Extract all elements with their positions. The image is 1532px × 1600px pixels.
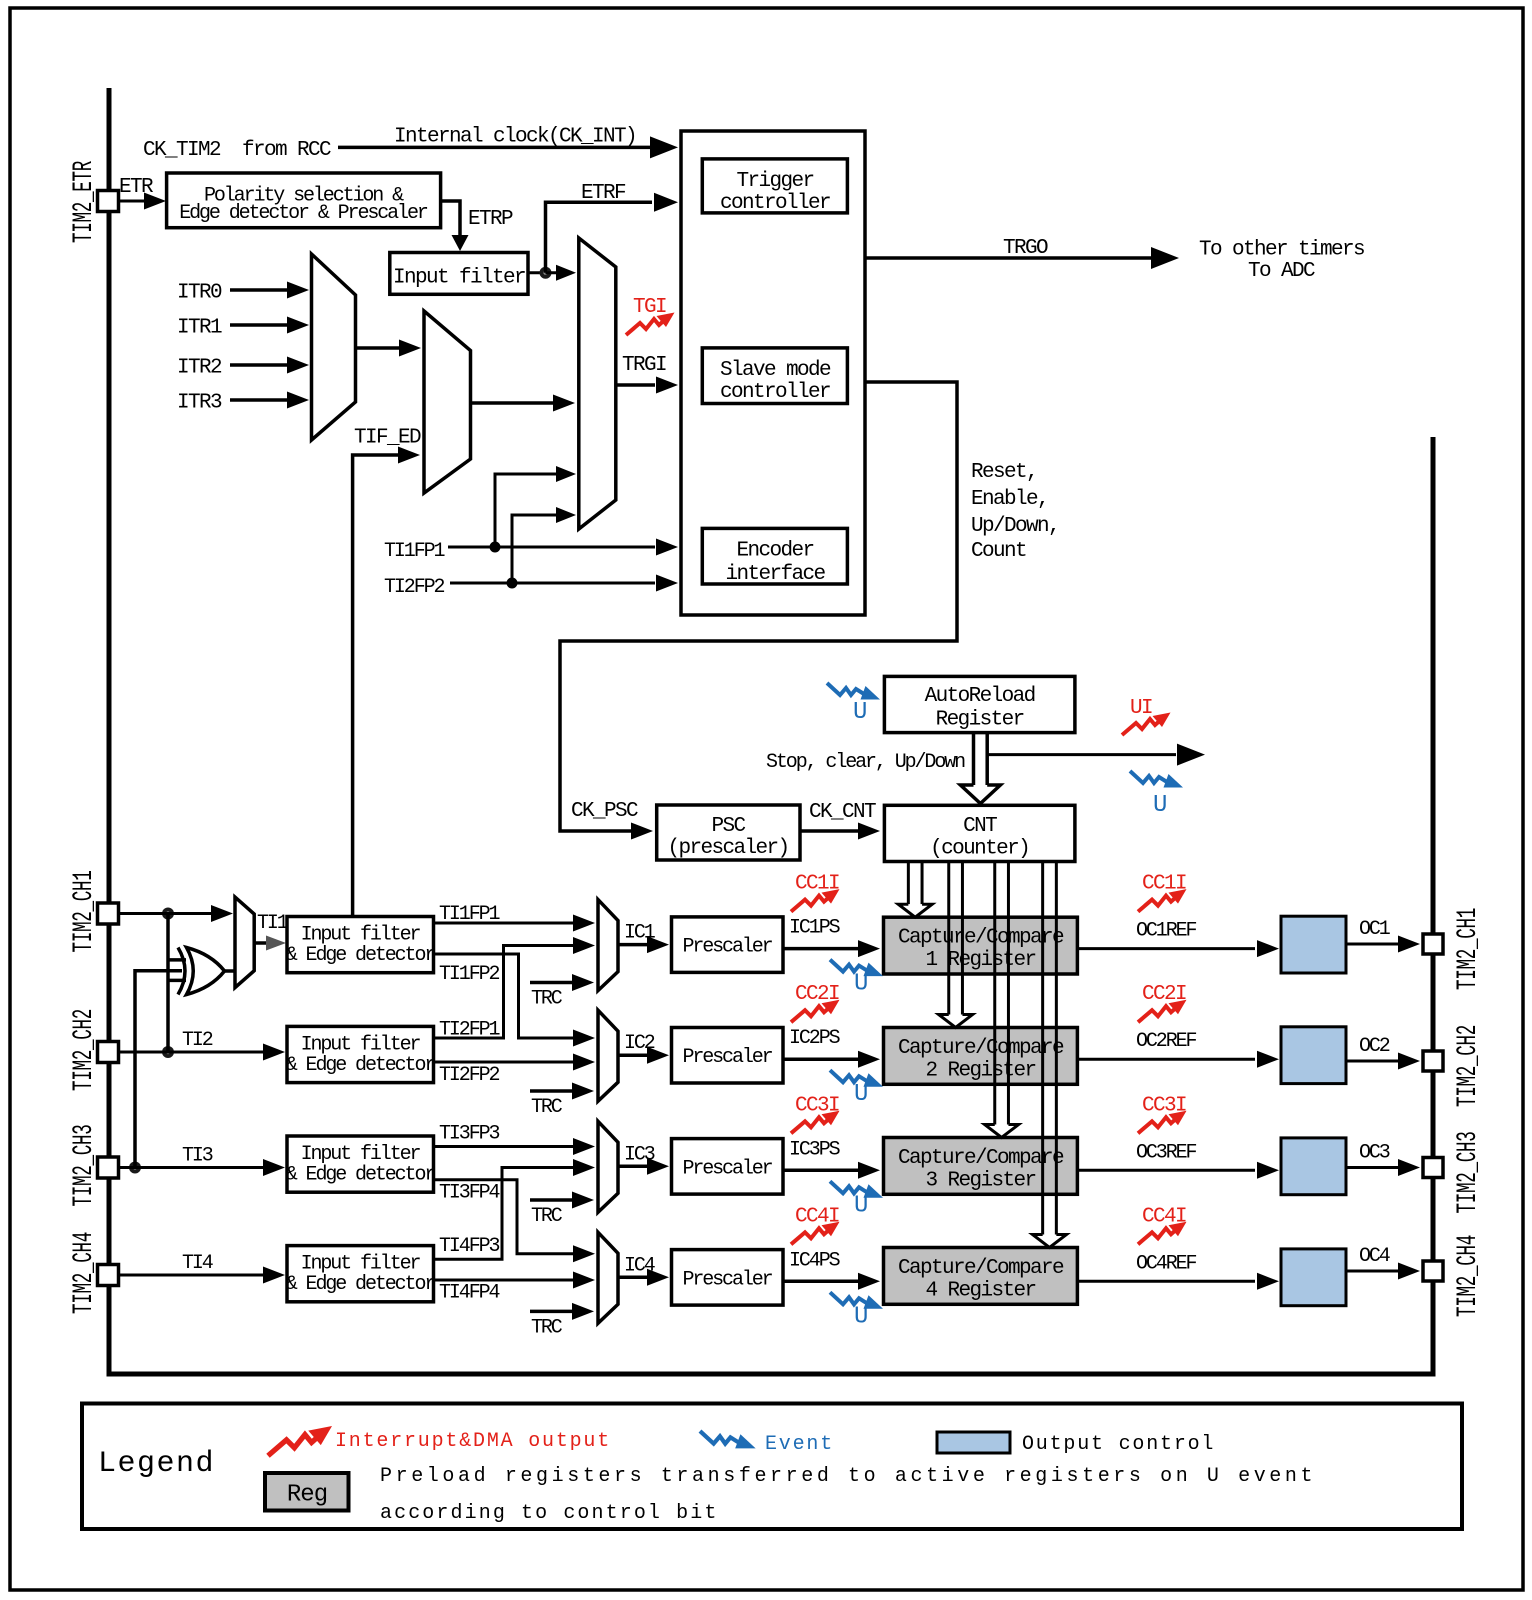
svg-text:U: U <box>853 699 866 726</box>
svg-text:U: U <box>854 971 867 998</box>
box legend <box>82 1404 1462 1530</box>
pad TIM2_CH1 right <box>1423 934 1443 954</box>
wire OC2REF <box>1077 1058 1255 1061</box>
svg-text:Output control: Output control <box>1022 1433 1215 1456</box>
svg-text:IC3: IC3 <box>624 1143 655 1166</box>
svg-text:TRC: TRC <box>531 1205 563 1228</box>
svg-text:ETRF: ETRF <box>581 182 626 205</box>
wire TI2FP1 to IC1 mux <box>434 946 576 1039</box>
box input filter ETR <box>390 253 528 295</box>
wire slave mode to CK_PSC <box>560 382 957 831</box>
mux TI1 selector trapezoid <box>235 897 254 988</box>
svg-text:IC1PS: IC1PS <box>789 917 841 940</box>
svg-text:& Edge detector: & Edge detector <box>286 1273 436 1296</box>
pin label TIM2_ETR <box>69 161 100 243</box>
svg-text:TI2FP2: TI2FP2 <box>384 576 445 599</box>
wire junction to trigger mux <box>546 271 573 274</box>
svg-text:Internal clock(CK_INT): Internal clock(CK_INT) <box>394 126 636 149</box>
wire ITR3 <box>230 398 288 402</box>
wire ETR to polarity box <box>118 200 162 203</box>
svg-text:OC1: OC1 <box>1359 918 1391 941</box>
svg-text:TI3FP3: TI3FP3 <box>439 1123 500 1146</box>
box prescaler ch3 <box>672 1139 784 1195</box>
svg-text:Edge detector & Prescaler: Edge detector & Prescaler <box>179 202 428 225</box>
wire xor input stub 1 <box>168 958 186 962</box>
svg-text:2 Register: 2 Register <box>925 1060 1035 1083</box>
hollow arrow CNT to CC3 <box>993 862 996 1125</box>
box input filter ch4 <box>287 1246 434 1302</box>
svg-text:TI4FP3: TI4FP3 <box>439 1235 500 1258</box>
svg-text:OC1REF: OC1REF <box>1136 920 1197 943</box>
svg-text:CK_TIM2 from RCC: CK_TIM2 from RCC <box>143 139 331 162</box>
svg-text:Encoder: Encoder <box>736 539 813 562</box>
svg-text:Stop, clear, Up/Down: Stop, clear, Up/Down <box>766 751 965 774</box>
svg-text:CK_CNT: CK_CNT <box>809 801 876 824</box>
zigzag legend interrupt <box>268 1426 332 1456</box>
svg-text:TRC: TRC <box>531 1316 563 1339</box>
pin label TIM2_CH3 left <box>69 1124 100 1206</box>
svg-text:Capture/Compare: Capture/Compare <box>898 1037 1064 1060</box>
pin label TIM2_CH2 right <box>1453 1025 1484 1107</box>
svg-text:1 Register: 1 Register <box>925 949 1035 972</box>
hollow arrow CNT to CC1 <box>907 862 910 905</box>
xor gate TI1 XOR <box>178 948 185 995</box>
svg-text:Up/Down,: Up/Down, <box>971 515 1059 538</box>
svg-text:(prescaler): (prescaler) <box>667 837 788 860</box>
wire bottom bus <box>107 1372 1436 1377</box>
wire CH2 pad to input filter <box>118 1051 265 1054</box>
wire ITR2 <box>230 363 288 367</box>
wire OC3 <box>1346 1166 1398 1169</box>
mux IC2 selector <box>598 1010 618 1101</box>
wire xor tap vertical ch3 <box>135 971 182 1168</box>
box output control ch1 <box>1281 916 1346 973</box>
svg-text:ITR0: ITR0 <box>177 282 222 305</box>
mux IC3 selector <box>598 1121 618 1212</box>
svg-text:TIM2_CH1: TIM2_CH1 <box>69 870 100 952</box>
svg-text:U: U <box>854 1081 867 1108</box>
svg-text:UI: UI <box>1130 697 1152 720</box>
box PSC prescaler <box>657 805 800 860</box>
svg-text:Prescaler: Prescaler <box>682 1046 772 1069</box>
box output control ch4 <box>1281 1249 1346 1306</box>
svg-text:TI4FP4: TI4FP4 <box>439 1282 500 1305</box>
pin label TIM2_CH1 left <box>69 870 100 952</box>
wire filter to junction <box>528 271 546 274</box>
svg-text:U: U <box>854 1192 867 1219</box>
hollow arrow CNT to CC2 <box>947 862 950 1015</box>
svg-text:Preload registers transferred: Preload registers transferred to active … <box>380 1465 1316 1488</box>
svg-text:TRGO: TRGO <box>1003 237 1048 260</box>
event zigzag U ch1 <box>830 960 883 977</box>
box polarity selection <box>167 173 441 228</box>
pad TIM2_CH2 left <box>98 1042 119 1063</box>
svg-text:& Edge detector: & Edge detector <box>286 1054 436 1077</box>
wire xor output <box>224 969 235 973</box>
wire UI update event out <box>987 753 1176 756</box>
svg-text:IC2PS: IC2PS <box>789 1027 841 1050</box>
svg-text:ITR2: ITR2 <box>177 357 222 380</box>
pad TIM2_CH4 left <box>98 1265 119 1286</box>
mux trigger selector <box>579 238 616 529</box>
svg-text:interface: interface <box>725 563 825 586</box>
wire right pin bus <box>1431 437 1436 1377</box>
wire TRC ch3 <box>530 1198 572 1202</box>
svg-text:IC3PS: IC3PS <box>789 1138 841 1161</box>
wire CH4 pad to input filter <box>118 1274 265 1277</box>
pad TIM2_CH1 left <box>98 903 119 924</box>
junction ETRF <box>540 267 552 279</box>
svg-text:TIM2_CH4: TIM2_CH4 <box>69 1232 100 1314</box>
pin label TIM2_CH1 right <box>1453 908 1484 990</box>
svg-text:Capture/Compare: Capture/Compare <box>898 927 1064 950</box>
zigzag CC2I right <box>1138 1000 1187 1023</box>
wire TRC ch4 <box>530 1310 572 1314</box>
svg-text:IC1: IC1 <box>624 922 656 945</box>
svg-text:OC4: OC4 <box>1359 1245 1390 1268</box>
wire OC1REF <box>1077 947 1255 950</box>
wire TRC ch1 <box>530 981 572 985</box>
wire slave mux output <box>471 401 554 405</box>
box capture compare 2 register <box>884 1028 1078 1085</box>
wire IC1 <box>618 943 648 947</box>
junction TI2 tap <box>162 1046 174 1058</box>
svg-text:CK_PSC: CK_PSC <box>571 800 638 823</box>
zigzag TGI interrupt <box>626 313 675 336</box>
wire TI3FP4 to IC4 mux <box>434 1180 576 1254</box>
wire IC4PS <box>783 1280 858 1284</box>
svg-text:Reset,: Reset, <box>971 461 1037 484</box>
zigzag CC4I right <box>1138 1222 1187 1245</box>
svg-text:TI3: TI3 <box>182 1145 213 1168</box>
wire TRGO <box>865 256 1152 260</box>
wire TI1 to input filter <box>254 941 272 945</box>
wire ETRF to trigger controller <box>546 202 653 273</box>
svg-text:& Edge detector: & Edge detector <box>286 944 436 967</box>
svg-text:Legend: Legend <box>98 1447 215 1481</box>
zigzag CC4I left <box>791 1222 840 1245</box>
wire OC4REF <box>1077 1280 1255 1283</box>
wire ETRP <box>441 201 460 236</box>
wire xor tap vertical ch1-ch2 <box>166 914 170 1053</box>
event zigzag U autoreload <box>827 683 880 700</box>
mux IC4 selector <box>598 1232 618 1323</box>
svg-text:TI1: TI1 <box>257 912 289 935</box>
wire OC1 <box>1346 943 1398 946</box>
svg-text:CNT: CNT <box>963 815 997 838</box>
wire IC3 <box>618 1165 648 1169</box>
svg-text:OC2: OC2 <box>1359 1035 1390 1058</box>
svg-text:according to control bit: according to control bit <box>380 1502 718 1525</box>
svg-text:OC4REF: OC4REF <box>1136 1252 1197 1275</box>
wire IC2PS <box>783 1057 858 1061</box>
junction TI1 <box>162 908 174 920</box>
wire TI2FP2 to IC2 mux <box>434 1061 576 1064</box>
box legend output control <box>937 1432 1010 1453</box>
box trigger controller <box>702 159 847 213</box>
box output control ch3 <box>1281 1138 1346 1195</box>
zigzag CC3I left <box>791 1111 840 1134</box>
wire TI1FP1 to trigger mux <box>495 474 556 547</box>
wire CK_CNT <box>800 829 858 833</box>
wire OC2 <box>1346 1060 1398 1063</box>
zigzag legend event <box>700 1431 756 1448</box>
pad TIM2_CH4 right <box>1423 1261 1443 1281</box>
box prescaler ch2 <box>672 1028 784 1084</box>
zigzag CC1I right <box>1138 889 1187 912</box>
wire CH1 pad to selector <box>118 912 212 915</box>
svg-text:IC2: IC2 <box>624 1032 655 1055</box>
wire ITR1 <box>230 323 288 327</box>
wire TI1FP1 to encoder <box>448 546 655 549</box>
pin label TIM2_CH2 left <box>69 1009 100 1091</box>
event zigzag U update <box>1130 771 1183 788</box>
junction TI1FP1 <box>490 542 501 553</box>
svg-text:Capture/Compare: Capture/Compare <box>898 1147 1064 1170</box>
wire TRC ch2 <box>530 1089 572 1093</box>
svg-text:U: U <box>854 1303 867 1330</box>
wire OC3REF <box>1077 1169 1255 1172</box>
svg-text:TI1FP2: TI1FP2 <box>439 963 500 986</box>
svg-text:ITR1: ITR1 <box>177 317 222 340</box>
wire TIF_ED <box>353 455 398 917</box>
svg-text:TIM2_CH4: TIM2_CH4 <box>1453 1235 1484 1317</box>
svg-text:Capture/Compare: Capture/Compare <box>898 1257 1064 1280</box>
svg-text:3 Register: 3 Register <box>925 1170 1035 1193</box>
svg-text:Trigger: Trigger <box>736 170 813 193</box>
svg-text:ETRP: ETRP <box>468 208 513 231</box>
svg-text:controller: controller <box>720 381 830 404</box>
zigzag CC2I left <box>791 1000 840 1023</box>
mux IC1 selector <box>598 900 618 991</box>
svg-text:To ADC: To ADC <box>1248 260 1315 283</box>
box capture compare 4 register <box>884 1248 1078 1305</box>
wire IC1PS <box>783 947 858 951</box>
svg-text:TRC: TRC <box>531 1096 563 1119</box>
svg-text:TI1FP1: TI1FP1 <box>384 540 446 563</box>
box autoreload register <box>884 676 1075 732</box>
zigzag CC1I left <box>791 889 840 912</box>
svg-text:Prescaler: Prescaler <box>682 1268 772 1291</box>
box timer controller block <box>681 131 865 615</box>
svg-text:OC3REF: OC3REF <box>1136 1141 1197 1164</box>
wire ITR mux output <box>356 346 401 350</box>
svg-text:TI2: TI2 <box>182 1029 213 1052</box>
svg-text:(counter): (counter) <box>930 838 1029 861</box>
mux slave mode selector <box>424 311 471 493</box>
svg-text:4 Register: 4 Register <box>925 1280 1035 1303</box>
wire TI1FP2 to IC2 mux <box>434 954 576 1038</box>
wire TRGI <box>616 383 655 387</box>
mux ITR selector <box>312 254 356 440</box>
svg-text:Reg: Reg <box>287 1482 327 1509</box>
svg-text:OC3: OC3 <box>1359 1142 1390 1165</box>
wire TI1FP1 to IC1 mux <box>434 922 576 925</box>
svg-text:Input filter: Input filter <box>393 267 525 290</box>
svg-text:To other timers: To other timers <box>1199 238 1364 261</box>
box input filter ch1 <box>287 917 434 973</box>
svg-text:TI2FP2: TI2FP2 <box>439 1064 500 1087</box>
hollow arrow CNT to CC4 <box>1041 862 1044 1235</box>
hollow arrow autoreload to CNT <box>972 733 976 785</box>
svg-text:& Edge detector: & Edge detector <box>286 1164 436 1187</box>
wire ITR0 <box>230 288 288 292</box>
wire TI4FP3 to IC3 mux <box>434 1168 576 1260</box>
svg-text:TIM2_CH2: TIM2_CH2 <box>1453 1025 1484 1107</box>
wire internal clock CK_INT <box>338 146 652 150</box>
svg-text:Enable,: Enable, <box>971 488 1048 511</box>
wire CH3 pad to input filter <box>118 1166 265 1169</box>
svg-text:TIM2_CH1: TIM2_CH1 <box>1453 908 1484 990</box>
pin label TIM2_CH3 right <box>1453 1131 1484 1213</box>
pad TIM2_CH2 right <box>1423 1051 1443 1071</box>
box prescaler ch4 <box>672 1250 784 1306</box>
wire TI2FP2 to encoder <box>450 582 655 585</box>
svg-text:TIF_ED: TIF_ED <box>354 427 421 450</box>
svg-text:Prescaler: Prescaler <box>682 936 772 959</box>
box capture compare 3 register <box>884 1138 1078 1195</box>
pad TIM2_CH3 left <box>98 1157 119 1178</box>
svg-text:AutoReload: AutoReload <box>925 685 1035 708</box>
svg-text:TIM2_CH2: TIM2_CH2 <box>69 1009 100 1091</box>
svg-text:Count: Count <box>971 540 1026 563</box>
junction TI3 tap <box>129 1162 141 1174</box>
event zigzag U ch2 <box>830 1070 883 1087</box>
svg-text:U: U <box>1153 792 1166 819</box>
pin label TIM2_CH4 left <box>69 1232 100 1314</box>
svg-text:Register: Register <box>936 708 1024 731</box>
svg-text:TIM2_CH3: TIM2_CH3 <box>69 1124 100 1206</box>
box slave mode controller <box>702 348 847 404</box>
box legend Reg <box>265 1473 349 1511</box>
svg-text:IC4PS: IC4PS <box>789 1249 841 1272</box>
wire IC2 <box>618 1053 648 1057</box>
box capture compare 1 register <box>884 917 1078 974</box>
wire IC4 <box>618 1276 648 1280</box>
svg-text:TRGI: TRGI <box>622 354 666 377</box>
wire OC4 <box>1346 1270 1398 1273</box>
junction TI2FP2 <box>507 578 518 589</box>
svg-text:ITR3: ITR3 <box>177 392 222 415</box>
box encoder interface <box>702 528 847 584</box>
box CNT counter <box>884 805 1075 861</box>
box prescaler ch1 <box>672 917 784 973</box>
wire TI3FP3 to IC3 mux <box>434 1145 576 1148</box>
wire left pin bus <box>107 88 112 1374</box>
pin label TIM2_CH4 right <box>1453 1235 1484 1317</box>
box input filter ch3 <box>287 1136 434 1192</box>
wire TI4FP4 to IC4 mux <box>434 1279 576 1282</box>
svg-text:Slave mode: Slave mode <box>720 359 831 382</box>
svg-text:controller: controller <box>720 192 830 215</box>
box input filter ch2 <box>287 1026 434 1082</box>
svg-text:Event: Event <box>765 1433 834 1456</box>
zigzag UI interrupt <box>1122 713 1171 736</box>
event zigzag U ch4 <box>830 1292 883 1309</box>
box output control ch2 <box>1281 1027 1346 1084</box>
svg-text:OC2REF: OC2REF <box>1136 1030 1197 1053</box>
pad TIM2_CH3 right <box>1423 1158 1443 1178</box>
svg-text:TRC: TRC <box>531 988 563 1011</box>
zigzag CC3I right <box>1138 1111 1187 1134</box>
pad ETR <box>98 191 119 212</box>
wire IC3PS <box>783 1169 858 1173</box>
wire TI2FP2 to trigger mux <box>512 515 556 583</box>
svg-text:TI3FP4: TI3FP4 <box>439 1182 500 1205</box>
svg-text:IC4: IC4 <box>624 1254 655 1277</box>
wire xor input stub 2 <box>168 979 186 983</box>
svg-text:PSC: PSC <box>711 815 745 838</box>
event zigzag U ch3 <box>830 1181 883 1198</box>
svg-text:TI4: TI4 <box>182 1252 213 1275</box>
svg-text:TIM2_CH3: TIM2_CH3 <box>1453 1131 1484 1213</box>
svg-text:Prescaler: Prescaler <box>682 1157 772 1180</box>
svg-text:Interrupt&DMA output: Interrupt&DMA output <box>335 1430 611 1453</box>
